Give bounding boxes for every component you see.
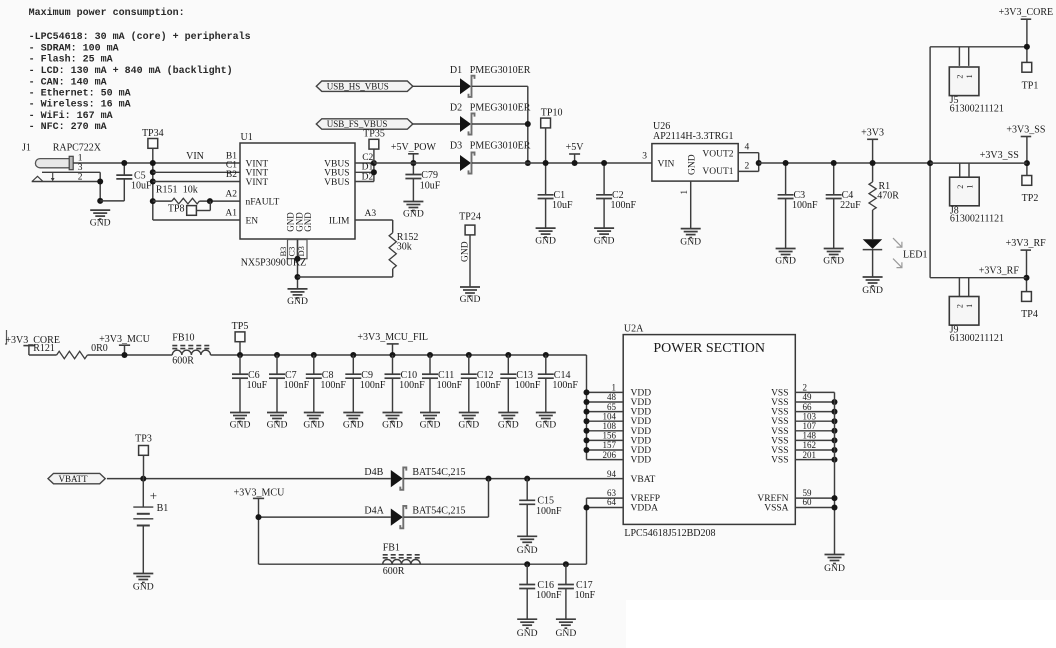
svg-text:TP4: TP4 — [1021, 309, 1038, 320]
svg-text:1: 1 — [78, 154, 83, 164]
svg-text:1: 1 — [679, 190, 689, 195]
svg-text:A1: A1 — [225, 208, 237, 218]
svg-text:GND: GND — [267, 420, 288, 431]
svg-text:VSS: VSS — [771, 388, 788, 398]
svg-text:BAT54C,215: BAT54C,215 — [412, 506, 465, 517]
svg-text:A2: A2 — [225, 190, 237, 200]
svg-text:148: 148 — [803, 431, 817, 441]
svg-text:100nF: 100nF — [536, 506, 562, 517]
svg-text:TP10: TP10 — [541, 107, 563, 118]
svg-text:157: 157 — [603, 440, 617, 450]
svg-text:156: 156 — [603, 431, 617, 441]
svg-text:VSS: VSS — [771, 436, 788, 446]
svg-text:- Ethernet: 50 mA: - Ethernet: 50 mA — [29, 88, 131, 100]
svg-text:4: 4 — [745, 142, 750, 152]
svg-text:VDD: VDD — [631, 408, 652, 418]
svg-text:600R: 600R — [383, 566, 405, 577]
svg-text:VDD: VDD — [631, 427, 652, 437]
svg-text:2: 2 — [956, 75, 965, 79]
svg-text:10uF: 10uF — [247, 380, 268, 391]
svg-text:GND: GND — [403, 209, 424, 220]
svg-text:+3V3_RF: +3V3_RF — [1006, 238, 1047, 249]
svg-text:107: 107 — [803, 421, 817, 431]
svg-text:+3V3_MCU: +3V3_MCU — [99, 334, 150, 345]
svg-text:+3V3_CORE: +3V3_CORE — [999, 7, 1054, 18]
svg-text:+3V3_SS: +3V3_SS — [1006, 125, 1045, 136]
svg-text:- LCD: 130 mA + 840 mA (backli: - LCD: 130 mA + 840 mA (backlight) — [29, 65, 233, 77]
svg-text:POWER SECTION: POWER SECTION — [653, 341, 765, 356]
svg-text:GND: GND — [420, 420, 441, 431]
svg-text:201: 201 — [803, 450, 817, 460]
svg-text:-LPC54618: 30 mA (core) + peri: -LPC54618: 30 mA (core) + peripherals — [29, 31, 251, 43]
svg-text:TP2: TP2 — [1022, 193, 1039, 204]
svg-text:VDD: VDD — [631, 417, 652, 427]
svg-text:103: 103 — [803, 411, 817, 421]
svg-text:VDD: VDD — [631, 388, 652, 398]
svg-text:VDD: VDD — [631, 398, 652, 408]
svg-text:VOUT1: VOUT1 — [702, 167, 733, 177]
svg-text:R121: R121 — [33, 343, 55, 354]
svg-text:A3: A3 — [365, 209, 377, 219]
svg-text:100nF: 100nF — [360, 380, 386, 391]
svg-text:TP24: TP24 — [459, 211, 481, 222]
svg-text:10k: 10k — [183, 185, 198, 196]
svg-text:GND: GND — [824, 563, 845, 574]
svg-text:+5V: +5V — [566, 142, 585, 153]
svg-text:D2: D2 — [362, 172, 374, 182]
svg-text:1: 1 — [965, 304, 974, 308]
svg-text:100nF: 100nF — [284, 380, 310, 391]
svg-text:100nF: 100nF — [399, 380, 425, 391]
svg-text:FB1: FB1 — [383, 542, 400, 553]
svg-text:GND: GND — [517, 628, 538, 639]
svg-text:GND: GND — [535, 235, 556, 246]
svg-text:100nF: 100nF — [320, 380, 346, 391]
svg-text:PMEG3010ER: PMEG3010ER — [470, 140, 531, 151]
svg-text:2: 2 — [956, 304, 965, 308]
svg-text:100nF: 100nF — [437, 380, 463, 391]
svg-text:GND: GND — [287, 296, 308, 307]
svg-text:PMEG3010ER: PMEG3010ER — [470, 103, 531, 114]
svg-text:66: 66 — [803, 402, 813, 412]
svg-text:BAT54C,215: BAT54C,215 — [412, 467, 465, 478]
svg-text:TP5: TP5 — [232, 321, 249, 332]
svg-text:U2A: U2A — [624, 324, 644, 335]
svg-text:+3V3: +3V3 — [861, 127, 884, 138]
svg-text:49: 49 — [803, 392, 813, 402]
svg-text:100nF: 100nF — [536, 590, 562, 601]
svg-text:22uF: 22uF — [840, 200, 861, 211]
svg-text:LED1: LED1 — [903, 249, 927, 260]
svg-text:USB_HS_VBUS: USB_HS_VBUS — [327, 81, 389, 91]
svg-text:470R: 470R — [877, 191, 899, 202]
svg-text:GND: GND — [343, 420, 364, 431]
svg-text:VINT: VINT — [246, 178, 269, 188]
svg-text:GND: GND — [556, 628, 577, 639]
svg-text:GND: GND — [823, 256, 844, 267]
svg-text:GND: GND — [303, 420, 324, 431]
svg-text:+5V_POW: +5V_POW — [391, 142, 437, 153]
svg-text:GND: GND — [680, 237, 701, 248]
svg-text:61300211121: 61300211121 — [950, 333, 1004, 344]
svg-text:206: 206 — [603, 450, 617, 460]
svg-text:- NFC: 270 mA: - NFC: 270 mA — [29, 122, 107, 133]
svg-text:2: 2 — [803, 383, 808, 393]
svg-text:3: 3 — [642, 152, 647, 162]
svg-text:VIN: VIN — [186, 151, 204, 162]
svg-text:- Flash: 25 mA: - Flash: 25 mA — [29, 54, 113, 66]
svg-text:GND: GND — [133, 582, 154, 593]
svg-text:- CAN: 140 mA: - CAN: 140 mA — [29, 77, 107, 88]
svg-text:10uF: 10uF — [552, 200, 573, 211]
svg-text:nFAULT: nFAULT — [246, 197, 280, 207]
svg-text:- Wireless: 16 mA: - Wireless: 16 mA — [29, 99, 131, 111]
svg-text:VBUS: VBUS — [324, 178, 349, 188]
svg-text:104: 104 — [603, 411, 617, 421]
svg-text:D1: D1 — [362, 163, 374, 173]
svg-text:1: 1 — [965, 185, 974, 189]
svg-text:R151: R151 — [156, 185, 178, 196]
svg-text:D4B: D4B — [364, 467, 383, 478]
svg-text:GND: GND — [90, 217, 111, 228]
svg-text:D4A: D4A — [364, 506, 384, 517]
svg-text:D2: D2 — [450, 103, 462, 114]
svg-text:TP3: TP3 — [135, 434, 152, 445]
svg-text:VOUT2: VOUT2 — [702, 150, 733, 160]
svg-text:VSS: VSS — [771, 408, 788, 418]
svg-text:+3V3_RF: +3V3_RF — [979, 266, 1020, 277]
svg-text:VDD: VDD — [631, 446, 652, 456]
svg-text:RAPC722X: RAPC722X — [53, 142, 102, 153]
svg-text:PMEG3010ER: PMEG3010ER — [470, 65, 531, 76]
svg-text:EN: EN — [246, 216, 259, 226]
svg-text:B1: B1 — [157, 503, 169, 514]
svg-text:VDD: VDD — [631, 456, 652, 466]
svg-text:94: 94 — [607, 469, 617, 479]
svg-text:+3V3_MCU: +3V3_MCU — [234, 487, 285, 498]
svg-text:VSSA: VSSA — [764, 504, 788, 514]
svg-text:+3V3_MCU_FIL: +3V3_MCU_FIL — [357, 332, 428, 343]
svg-text:GND: GND — [458, 420, 479, 431]
svg-text:100nF: 100nF — [515, 380, 541, 391]
svg-text:162: 162 — [803, 440, 817, 450]
svg-text:+3V3_SS: +3V3_SS — [980, 150, 1019, 161]
svg-text:- WiFi: 167 mA: - WiFi: 167 mA — [29, 110, 113, 122]
svg-text:GND: GND — [230, 420, 251, 431]
svg-text:J1: J1 — [22, 142, 31, 153]
svg-text:108: 108 — [603, 421, 617, 431]
svg-text:600R: 600R — [172, 355, 194, 366]
svg-text:D1: D1 — [450, 65, 462, 76]
svg-text:GND: GND — [687, 154, 697, 175]
svg-text:LPC54618J512BD208: LPC54618J512BD208 — [624, 528, 715, 539]
svg-text:VSS: VSS — [771, 427, 788, 437]
svg-text:2: 2 — [745, 161, 750, 171]
svg-text:TP34: TP34 — [142, 128, 164, 139]
svg-text:100nF: 100nF — [552, 380, 578, 391]
svg-text:30k: 30k — [397, 241, 412, 252]
svg-text:GND: GND — [498, 420, 519, 431]
svg-text:GND: GND — [382, 420, 403, 431]
svg-text:61300211121: 61300211121 — [950, 214, 1004, 225]
svg-text:VDD: VDD — [631, 436, 652, 446]
svg-text:GND: GND — [594, 235, 615, 246]
svg-text:1: 1 — [965, 74, 974, 78]
svg-text:VBATT: VBATT — [59, 474, 89, 484]
svg-text:VSS: VSS — [771, 446, 788, 456]
svg-text:TP8: TP8 — [168, 203, 185, 214]
svg-text:48: 48 — [607, 392, 617, 402]
svg-text:D3: D3 — [450, 140, 462, 151]
svg-text:U1: U1 — [241, 132, 253, 143]
svg-text:GND: GND — [460, 241, 470, 262]
svg-text:ILIM: ILIM — [329, 216, 350, 226]
svg-text:TP1: TP1 — [1022, 80, 1039, 91]
svg-text:65: 65 — [607, 402, 617, 412]
svg-text:10uF: 10uF — [131, 181, 152, 192]
svg-text:VIN: VIN — [658, 160, 675, 170]
svg-text:C2: C2 — [362, 153, 373, 163]
svg-text:1: 1 — [612, 383, 617, 393]
svg-text:D3: D3 — [296, 246, 306, 256]
svg-text:VDDA: VDDA — [631, 504, 659, 514]
svg-text:NX5P3090UKZ: NX5P3090UKZ — [241, 257, 307, 268]
svg-text:VSS: VSS — [771, 398, 788, 408]
svg-text:GND: GND — [517, 545, 538, 556]
svg-text:GND: GND — [862, 285, 883, 296]
svg-text:VSS: VSS — [771, 417, 788, 427]
svg-text:GND: GND — [535, 420, 556, 431]
svg-text:GND: GND — [775, 256, 796, 267]
svg-text:GND: GND — [303, 212, 313, 232]
svg-text:10uF: 10uF — [420, 180, 441, 191]
svg-text:VBAT: VBAT — [631, 475, 656, 485]
svg-text:100nF: 100nF — [611, 200, 637, 211]
svg-text:61300211121: 61300211121 — [950, 103, 1004, 114]
svg-text:TP35: TP35 — [363, 129, 385, 140]
svg-text:Maximum power consumption:: Maximum power consumption: — [29, 7, 185, 19]
svg-text:GND: GND — [460, 294, 481, 305]
svg-text:+: + — [150, 488, 157, 503]
svg-text:VSS: VSS — [771, 456, 788, 466]
svg-text:10nF: 10nF — [575, 590, 596, 601]
svg-text:- SDRAM: 100 mA: - SDRAM: 100 mA — [29, 43, 119, 54]
svg-text:AP2114H-3.3TRG1: AP2114H-3.3TRG1 — [653, 131, 733, 142]
svg-text:FB10: FB10 — [172, 332, 194, 343]
svg-text:2: 2 — [956, 185, 965, 189]
svg-text:100nF: 100nF — [475, 380, 501, 391]
svg-text:100nF: 100nF — [792, 200, 818, 211]
svg-text:B2: B2 — [226, 170, 237, 180]
